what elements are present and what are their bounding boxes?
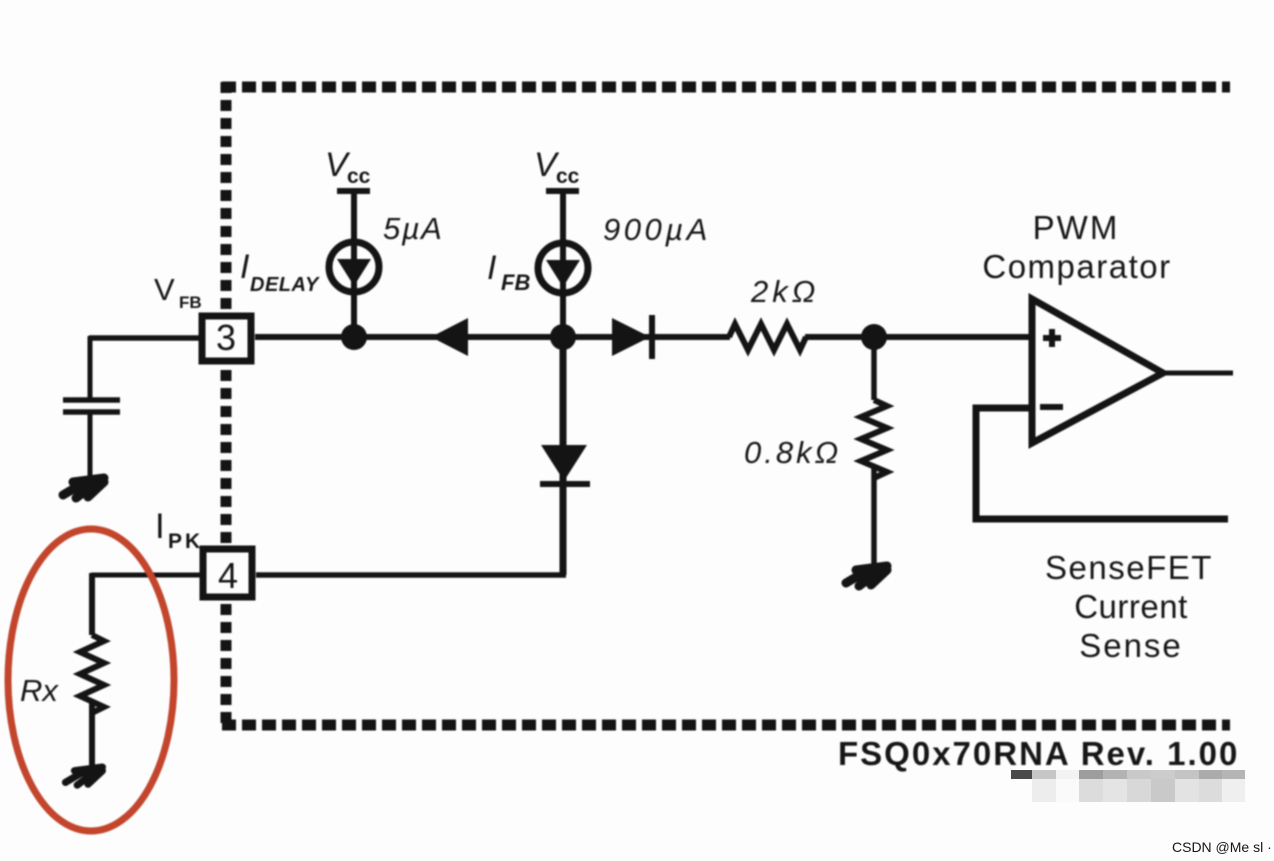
watermark mosaic row 2	[1032, 779, 1056, 802]
wire capacitor to ground	[88, 413, 93, 477]
junction node at IDELAY	[341, 324, 367, 350]
op-amp PWM comparator triangle	[1032, 299, 1163, 443]
current source IFB arrow	[546, 260, 580, 287]
wire pin4 to diode D2	[256, 572, 566, 578]
wire Vcc2 to node	[560, 191, 566, 337]
svg-text:CSDN @Me sl ·: CSDN @Me sl ·	[1172, 839, 1272, 855]
current source IDELAY arrow	[337, 259, 371, 286]
main horizontal wire (pin3 to comparator, left part)	[255, 334, 730, 340]
plus input mark	[1043, 329, 1061, 347]
junction node at IFB	[550, 324, 576, 350]
pin 4 box	[203, 549, 252, 597]
wire 0.8k to ground	[871, 467, 877, 567]
IC boundary dashed left border	[221, 82, 232, 725]
wire Rx to ground	[89, 702, 95, 775]
wire Vcc1 to node	[351, 191, 357, 337]
diode D2 cathode bar	[540, 481, 590, 487]
diode D1 cathode bar	[649, 315, 655, 359]
ground (0.8k resistor)	[846, 566, 887, 586]
current source IDELAY circle	[329, 242, 379, 292]
wire node to 0.8k resistor	[871, 337, 877, 400]
left-pointing arrow on wire	[431, 318, 468, 356]
wire Rx vertical top	[89, 573, 95, 635]
IC boundary dashed top border	[222, 82, 1230, 93]
Vcc rail 2 (T-bar)	[546, 188, 579, 194]
watermark mosaic row 1	[1011, 770, 1032, 779]
ground (capacitor)	[63, 478, 104, 498]
resistor Rx zigzag	[80, 635, 104, 713]
capacitor C plates	[63, 400, 120, 412]
feedback wire to minus input	[976, 408, 1228, 519]
wire pin4 to Rx	[91, 573, 204, 578]
resistor 2k zigzag	[729, 324, 806, 350]
wire capacitor vertical top	[88, 336, 93, 399]
diode D2 (down-pointing) triangle	[541, 445, 587, 481]
wire pin3 to capacitor	[89, 335, 203, 341]
resistor 0.8k zigzag	[861, 400, 887, 478]
wire IFB node down to diode D2	[560, 337, 567, 575]
comparator output wire	[1163, 371, 1233, 376]
pin 3 box	[202, 316, 251, 361]
ground (Rx)	[66, 767, 103, 785]
Vcc rail 1 (T-bar)	[337, 188, 370, 194]
diode D1 (right-pointing) triangle	[612, 318, 650, 356]
IC boundary dashed bottom border	[222, 720, 1230, 731]
junction node at divider	[861, 324, 887, 350]
main horizontal wire (right of resistor)	[805, 334, 1031, 340]
current source IFB circle	[538, 243, 588, 293]
red highlight ellipse	[8, 529, 174, 831]
minus input mark	[1040, 404, 1063, 410]
